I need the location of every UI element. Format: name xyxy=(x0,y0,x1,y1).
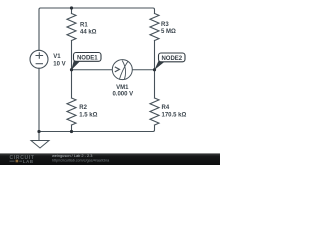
svg-text:NODE2: NODE2 xyxy=(161,56,182,62)
svg-text:0.000 V: 0.000 V xyxy=(112,91,133,97)
wire voltmeter to node2 xyxy=(132,69,154,71)
junction dot R2 bottom xyxy=(70,130,73,133)
svg-text:LAB: LAB xyxy=(23,159,34,164)
svg-text:R2: R2 xyxy=(79,105,87,111)
voltmeter dial arc xyxy=(122,61,125,80)
voltage source V1 circle xyxy=(30,50,48,68)
V1 plus sign xyxy=(36,52,44,64)
wire node2 to R4 xyxy=(154,70,156,98)
wire top horizontal xyxy=(41,8,155,14)
wire left branch upper xyxy=(39,8,41,50)
wire R2 bottom lead xyxy=(71,125,73,132)
svg-text:R4: R4 xyxy=(162,105,170,111)
svg-text:VM1: VM1 xyxy=(116,85,129,91)
svg-text:170.5 kΩ: 170.5 kΩ xyxy=(162,112,187,118)
wire R1 to node1 xyxy=(71,41,73,70)
watermark logo dash right xyxy=(19,160,22,163)
resistor R3 xyxy=(150,14,159,41)
wire R1 top lead xyxy=(71,8,73,14)
svg-text:V1: V1 xyxy=(53,54,61,60)
ground symbol xyxy=(31,141,49,149)
wire node1 to R2 xyxy=(71,70,73,98)
node NODE1 callout tail xyxy=(71,60,80,70)
node NODE1 box xyxy=(74,53,102,62)
wire bottom horizontal xyxy=(39,131,153,133)
voltmeter needle xyxy=(119,62,127,80)
svg-text:R3: R3 xyxy=(161,22,169,28)
resistor R1 xyxy=(67,14,76,41)
svg-text:R1: R1 xyxy=(80,23,88,29)
ground stub wire xyxy=(38,132,40,141)
watermark logo dash left xyxy=(10,160,15,163)
svg-text:5 MΩ: 5 MΩ xyxy=(161,29,176,35)
voltmeter VM1 circle xyxy=(112,60,132,80)
node NODE2 callout tail xyxy=(154,60,164,70)
junction dot top R1 xyxy=(70,6,73,9)
wire R3 to node2 xyxy=(154,41,156,70)
junction dot node1 xyxy=(70,68,73,71)
wire node1 to voltmeter xyxy=(72,69,113,71)
junction dot node2 xyxy=(153,68,156,71)
svg-text:http//circuitlab.com/c/gas/4ra: http//circuitlab.com/c/gas/4raa93na xyxy=(52,159,110,163)
svg-text:44 kΩ: 44 kΩ xyxy=(80,30,97,36)
V1 minus sign xyxy=(36,63,43,65)
watermark logo square xyxy=(16,160,19,163)
wire R4 bottom lead xyxy=(153,125,155,132)
wire left branch lower xyxy=(38,68,40,131)
node NODE2 box xyxy=(159,53,186,62)
svg-text:NODE1: NODE1 xyxy=(77,56,98,62)
svg-text:1.5 kΩ: 1.5 kΩ xyxy=(79,112,97,118)
resistor R4 xyxy=(150,98,159,125)
junction dot ground xyxy=(37,130,40,133)
svg-text:10 V: 10 V xyxy=(53,62,65,68)
svg-text:weinguson / Lab 2 - 2.3: weinguson / Lab 2 - 2.3 xyxy=(52,153,92,158)
resistor R2 xyxy=(67,98,76,125)
voltmeter arrow xyxy=(115,67,120,72)
